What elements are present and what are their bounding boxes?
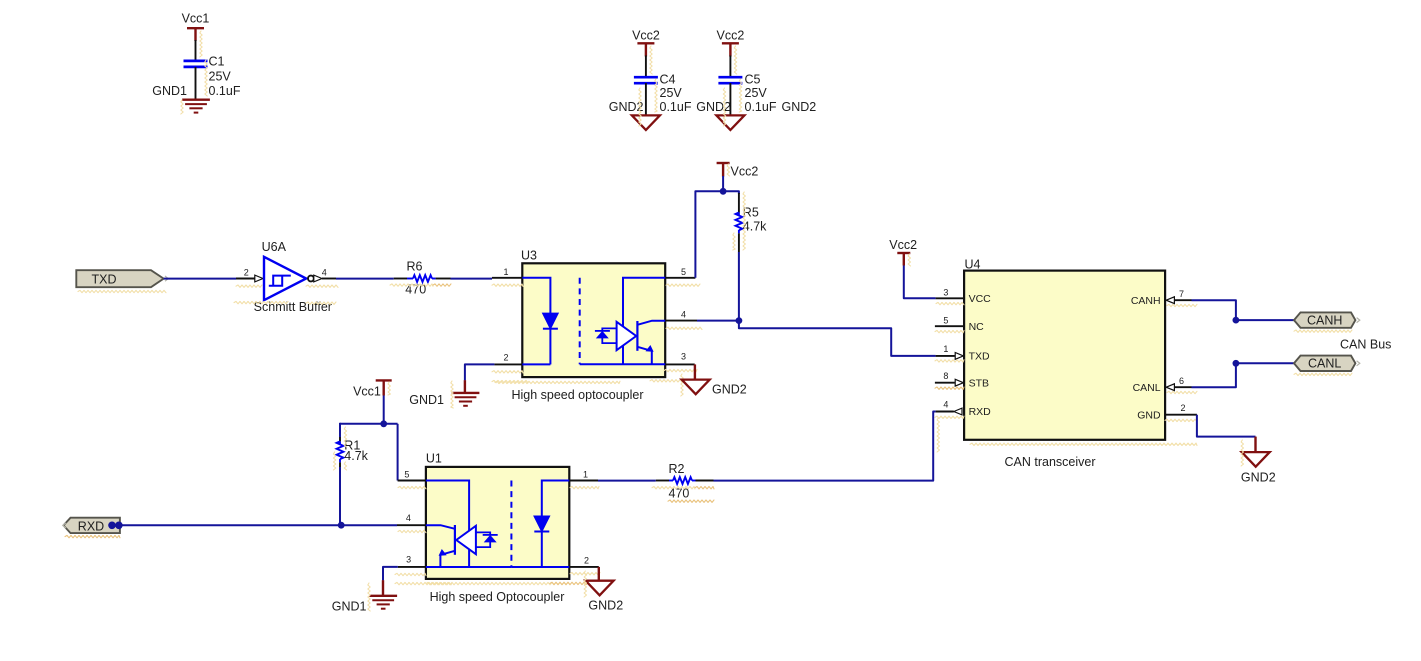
buffer U6A pin 4 [314,268,336,282]
U4 pin 1 TXD [936,344,990,363]
svg-text:U3: U3 [521,249,537,263]
svg-text:25V: 25V [209,70,232,84]
wire junction to U4 TXD [739,321,936,356]
U3 internal phototransistor [580,278,666,364]
svg-text:8: 8 [943,371,948,381]
svg-text:7: 7 [1179,289,1184,299]
resistor R2 470 [656,462,714,500]
wire C4 to GND2 [645,83,647,115]
wire junction to U1 pin 4 [341,524,397,526]
wire RXD port to junction [120,524,341,526]
U4 pin 8 STB [935,371,989,389]
wire U3 pin 4 to junction [697,320,739,322]
junction CANH [1233,317,1240,324]
port CANL [1294,356,1360,371]
wire junction horizontal [340,423,398,425]
port RXD [63,518,120,534]
svg-text:4: 4 [322,268,327,278]
power Vcc1 (C1) [182,11,210,41]
ground GND2 (C5) [696,100,744,130]
wire Vcc2 to C5 [729,56,731,78]
op-amp U6A (Schmitt buffer) [254,240,332,314]
wire C5 to GND2 [729,83,731,115]
svg-text:Vcc2: Vcc2 [632,29,660,43]
svg-text:U6A: U6A [262,240,287,254]
U3 pin 5 [665,267,695,278]
wire junction to R5 [723,191,739,194]
svg-text:4: 4 [681,310,686,320]
inversion bubble U6A [308,276,314,282]
svg-text:1: 1 [943,344,948,354]
svg-text:GND1: GND1 [152,84,187,98]
svg-text:Vcc2: Vcc2 [717,29,745,43]
svg-text:GND2: GND2 [1241,470,1276,484]
svg-text:CANH: CANH [1131,295,1161,307]
resistor R1 4.7k [337,423,369,467]
capacitor C4 [634,73,692,114]
svg-text:GND1: GND1 [409,393,444,407]
U1 pin 4 [397,513,426,525]
junction at R5/pin4 [736,317,743,324]
U4 pin 2 GND [1137,403,1197,421]
wire R1 to RXD net [339,467,341,525]
power Vcc1 (R1) [353,380,392,398]
U3 pin 1 [492,267,522,278]
svg-text:5: 5 [404,469,409,479]
ground GND2 (C4) [609,100,660,130]
U1 isolation divider [510,481,512,568]
svg-text:0.1uF: 0.1uF [209,84,241,98]
svg-text:Vcc1: Vcc1 [182,11,210,25]
svg-text:2: 2 [503,353,508,363]
svg-text:U4: U4 [965,257,981,271]
wire junction to CANH port [1236,319,1294,321]
U4 pin 5 NC [935,315,984,333]
svg-text:5: 5 [681,267,686,277]
U1 pin 1 [569,470,598,481]
U3 pin 4 [665,310,697,321]
svg-text:RXD: RXD [969,406,992,418]
svg-text:2: 2 [584,556,589,566]
svg-text:Vcc2: Vcc2 [731,165,759,179]
junction at Vcc2/R5 [720,188,727,195]
svg-text:4.7k: 4.7k [743,220,767,234]
wire U3 pin 2 to GND1 [465,364,495,380]
U4 pin 3 VCC [936,287,992,305]
wire R5 to junction [738,252,740,321]
wire junction to U1 pin 5 [397,424,399,481]
wire U3 pin 3 to GND2 [694,364,696,379]
ground GND1 (U1) [332,580,397,613]
wire C1 to GND1 [195,67,197,100]
svg-text:6: 6 [1179,376,1184,386]
svg-text:R2: R2 [669,462,685,476]
U3 pin 3 [665,352,695,365]
svg-text:0.1uF: 0.1uF [660,100,692,114]
svg-text:2: 2 [244,268,249,278]
svg-text:High speed optocoupler: High speed optocoupler [511,388,643,402]
svg-text:4.7k: 4.7k [344,449,368,463]
wire junction to CANL port [1236,362,1294,364]
junction RXD/R1 [338,522,345,529]
U3 isolation divider [579,278,581,364]
resistor R5 4.7k [736,193,768,252]
svg-text:C4: C4 [660,73,676,87]
power Vcc2 (C5) [717,29,745,57]
svg-text:U1: U1 [426,451,442,465]
U1 pin 2 [569,556,599,567]
capacitor C5 [718,73,776,114]
resistor R6 470 [394,260,451,297]
svg-text:CANL: CANL [1133,382,1161,394]
wire U3 pin5 riser [695,191,723,277]
svg-text:3: 3 [681,352,686,362]
svg-text:TXD: TXD [92,272,117,286]
wire U1 pin 3 to GND1 [383,567,398,581]
svg-text:High speed Optocoupler: High speed Optocoupler [430,590,565,604]
svg-text:1: 1 [583,470,588,480]
ground GND2 (U1) [586,581,624,613]
power Vcc2 (U4) [889,238,917,266]
svg-text:CANH: CANH [1307,313,1342,327]
U1 internal LED [511,481,569,568]
svg-text:1: 1 [503,267,508,277]
buffer U6A pin 2 [236,268,263,282]
svg-text:5: 5 [943,315,948,325]
svg-text:TXD: TXD [969,351,990,363]
svg-text:CANL: CANL [1308,357,1341,371]
port TXD [76,270,168,287]
svg-text:STB: STB [969,377,989,389]
U1 internal phototransistor [426,481,512,568]
wire Vcc1 to junction [383,396,385,424]
svg-text:CAN Bus: CAN Bus [1340,337,1391,351]
svg-text:NC: NC [969,321,985,333]
ground GND1 (C1) [152,84,210,113]
wire Vcc2 to U4 VCC [904,266,936,299]
U1 pin 3 [398,555,426,567]
wire Vcc2 to junction [722,176,724,191]
U3 pin 2 [494,353,522,365]
svg-text:Vcc2: Vcc2 [889,238,917,252]
svg-text:3: 3 [943,287,948,297]
wire U6A to R6 [336,278,394,280]
svg-text:GND1: GND1 [332,600,367,614]
wire U4 CANH to port [1192,300,1236,320]
svg-text:0.1uF: 0.1uF [745,100,777,114]
wire U4 RXD to R2 [714,412,936,481]
ground GND1 (U3) [409,380,479,407]
svg-text:RXD: RXD [78,519,104,533]
svg-text:GND: GND [1137,409,1161,421]
svg-text:GND2: GND2 [588,599,623,613]
capacitor C1 [184,55,241,99]
svg-text:C1: C1 [209,55,225,69]
wire U4 CANL to port [1192,363,1236,387]
wire TXD to U6A pin 2 [164,278,236,280]
svg-text:25V: 25V [660,86,683,100]
svg-text:3: 3 [406,555,411,565]
optocoupler U1 body [426,451,569,603]
U1 pin 5 [398,469,426,480]
svg-text:R6: R6 [407,260,423,274]
wire U1 pin 2 to GND2 [598,567,600,581]
svg-text:Vcc1: Vcc1 [353,385,381,399]
svg-text:CAN transceiver: CAN transceiver [1005,455,1096,469]
wire Vcc1 to C1 [195,40,197,61]
wire R6 to U3 pin 1 [451,278,493,280]
ground GND2 (U3) [682,380,747,397]
U4 pin 6 CANL [1133,376,1192,394]
svg-text:GND2: GND2 [712,383,747,397]
ground GND2 (U4) [1241,437,1276,485]
svg-text:C5: C5 [745,73,761,87]
wire Vcc2 to C4 [645,56,647,78]
svg-text:4: 4 [943,400,948,410]
junction CANL [1233,360,1240,367]
svg-text:4: 4 [406,513,411,523]
power Vcc2 (R5) [717,163,759,179]
junction Vcc1/R1 [380,420,387,427]
svg-text:VCC: VCC [969,293,992,305]
power Vcc2 (C4) [632,29,660,57]
svg-text:GND2: GND2 [782,100,817,114]
U4 pin 4 RXD [936,400,992,419]
port CANH [1294,312,1360,327]
junction at RXD port [108,522,116,530]
wire U4 GND to GND2 [1197,415,1256,437]
IC U4 body [964,257,1165,469]
U4 pin 7 CANH [1131,289,1192,307]
optocoupler U3 body [511,249,665,402]
wire U1 pin 1 to R2 [598,480,656,482]
U3 internal LED [522,278,558,365]
svg-text:25V: 25V [745,86,768,100]
svg-text:2: 2 [1180,403,1185,413]
